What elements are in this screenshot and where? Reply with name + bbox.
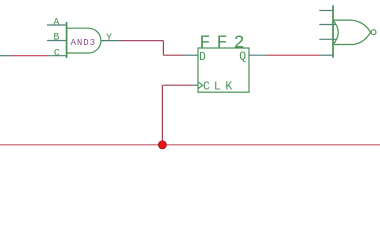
- wire: Y net into FF2 D pin: [163, 54, 183, 56]
- pin Y output stub of AND3: [101, 40, 121, 42]
- pin B stub of AND3: [47, 40, 67, 42]
- pin C stub of AND3: [47, 55, 67, 57]
- pin name CLK: [203, 81, 232, 94]
- pin 4 stub of NOR gate: [320, 54, 333, 56]
- svg-text:B: B: [53, 33, 59, 44]
- svg-text:L: L: [214, 81, 221, 94]
- pin Q stub of FF2: [249, 54, 266, 56]
- pin 2 stub of NOR gate: [319, 24, 336, 26]
- svg-text:D: D: [199, 51, 206, 64]
- wire: Y net vertical jog: [162, 41, 164, 56]
- pin D stub of FF2: [183, 54, 198, 56]
- svg-text:Y: Y: [106, 33, 112, 44]
- wire: net from FF2 Q output to NOR input: [266, 54, 320, 56]
- svg-text:C: C: [203, 81, 210, 94]
- and-gate AND3 body: [67, 28, 101, 53]
- wire: input net entering at left edge to AND3 pin C: [12, 55, 48, 57]
- nor-gate body: [333, 20, 371, 44]
- value label AND3: [71, 38, 96, 48]
- clock triangle on FF2: [198, 82, 202, 89]
- nor-gate input bar: [332, 5, 334, 57]
- svg-text:N: N: [77, 38, 82, 48]
- pin 1 stub of NOR gate: [319, 10, 333, 12]
- wire: horizontal to FF2 CLK pin: [162, 84, 192, 86]
- svg-text:A: A: [71, 38, 77, 48]
- wire: bottom horizontal bus net: [0, 144, 380, 146]
- wire: net from AND3 output Y, horizontal run: [121, 40, 164, 42]
- nor-gate output inversion bubble: [371, 30, 376, 35]
- and-gate AND3 input bar: [66, 22, 68, 58]
- svg-text:3: 3: [90, 38, 95, 48]
- pin A stub of AND3: [47, 24, 67, 26]
- wire: vertical from junction up to CLK wire: [161, 85, 163, 145]
- svg-text:D: D: [83, 38, 88, 48]
- svg-text:Q: Q: [239, 50, 246, 63]
- junction dot on bus: [158, 141, 166, 149]
- reference label FF2: [200, 33, 245, 53]
- svg-text:F: F: [217, 33, 228, 53]
- pin stub off-screen device at far left: [0, 55, 12, 57]
- svg-text:C: C: [54, 49, 60, 60]
- svg-text:A: A: [53, 18, 59, 29]
- svg-text:K: K: [225, 81, 232, 94]
- pin 3 stub of NOR gate: [319, 38, 336, 40]
- flip-flop FF2 body: [198, 48, 249, 92]
- pin CLK stub of FF2: [193, 84, 199, 86]
